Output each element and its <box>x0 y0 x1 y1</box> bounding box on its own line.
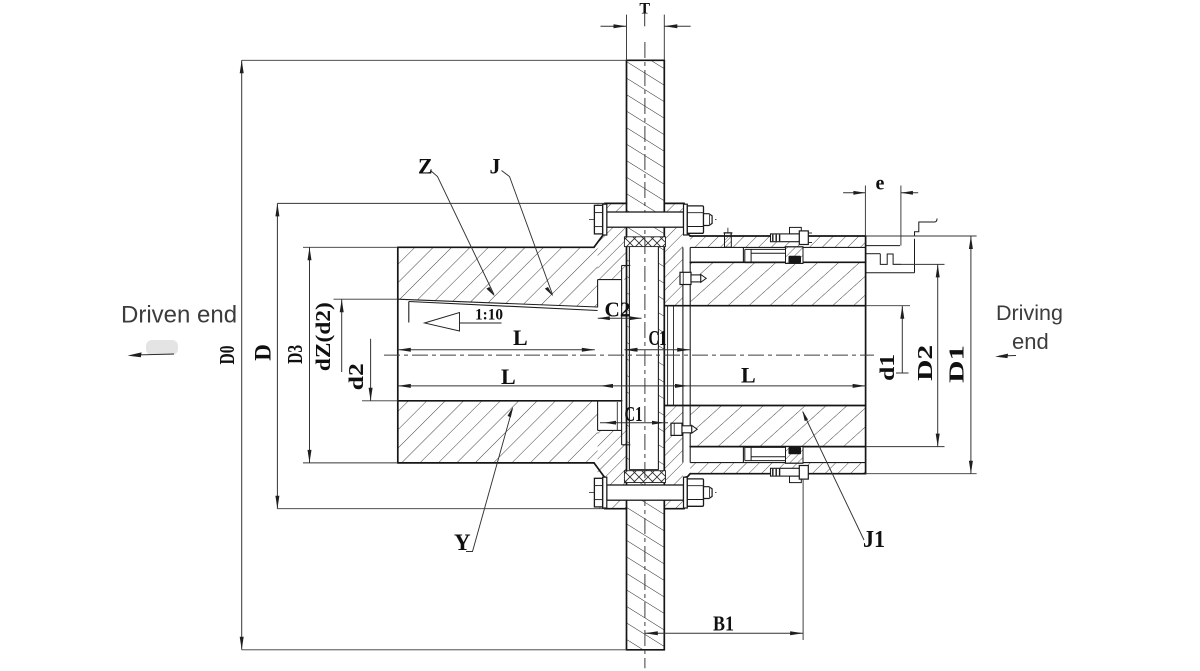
driven end arrow <box>128 340 179 357</box>
svg-text:Driving: Driving <box>996 301 1063 325</box>
D3 extension bottom <box>303 462 398 464</box>
svg-text:C1: C1 <box>625 402 643 426</box>
svg-text:d2: d2 <box>344 363 368 390</box>
svg-text:D0: D0 <box>215 346 239 365</box>
right hub section (bottom block) <box>690 406 865 447</box>
top main bolt <box>589 204 717 235</box>
labyrinth comb <box>866 245 900 247</box>
D3 arrows <box>308 247 312 260</box>
right hub section (top block) <box>690 262 865 305</box>
svg-text:C1: C1 <box>649 326 667 350</box>
L upper arrows <box>398 348 411 352</box>
svg-text:J1: J1 <box>863 527 885 553</box>
spigot ring bottom <box>624 471 665 483</box>
C1 lower extension <box>616 402 618 430</box>
svg-text:L: L <box>501 364 516 389</box>
left hub bore bottom <box>398 400 622 402</box>
right hub bore <box>664 305 865 307</box>
dimension D3 line <box>309 247 311 463</box>
D extension bottom <box>277 508 604 510</box>
svg-text:Z: Z <box>418 154 433 179</box>
dimension D2 line <box>937 264 939 446</box>
svg-text:end: end <box>1012 329 1049 354</box>
L lower arrows <box>398 384 411 388</box>
taper big-end tick <box>408 302 410 323</box>
dimension D line <box>276 203 278 508</box>
hub bore counterbore top <box>598 279 622 281</box>
D0 arrows <box>240 60 244 73</box>
disc hub boss face <box>621 266 623 445</box>
svg-text:D1: D1 <box>945 345 969 383</box>
D1 extension top <box>866 235 977 237</box>
left hub section (top) <box>398 247 598 307</box>
sleeve ID lines <box>690 246 865 248</box>
left hub outline <box>397 247 399 463</box>
svg-text:e: e <box>876 173 885 195</box>
right flange section (bottom) <box>664 406 683 509</box>
left hub bore top hatch boundary <box>398 299 598 307</box>
svg-text:d1: d1 <box>875 354 899 381</box>
D1 extension bottom <box>866 473 977 475</box>
svg-text:T: T <box>639 1 650 18</box>
d1 arrow <box>900 306 904 319</box>
taper 1:10 bore line <box>409 302 598 311</box>
T arrows <box>614 24 627 28</box>
left flange web section (bottom strip) <box>598 430 627 508</box>
leader arrow tips <box>486 287 495 296</box>
leader J1 <box>803 412 864 540</box>
T extension lines <box>626 15 628 61</box>
disc web window edges <box>628 243 630 470</box>
dimension C2 line <box>598 317 642 319</box>
faces seen through right flange bore <box>667 306 669 406</box>
dimension B1 line <box>645 632 803 634</box>
left hub section (bottom) <box>398 401 598 463</box>
cover screw top <box>680 272 706 284</box>
svg-text:L: L <box>741 363 756 388</box>
svg-text:1:10: 1:10 <box>475 307 503 324</box>
leader J <box>502 171 553 295</box>
e arrows <box>853 191 865 195</box>
brake shoe break-out step <box>915 222 935 236</box>
dZ extension <box>334 298 398 300</box>
bottom main bolt <box>589 477 717 508</box>
seal gland section top <box>786 247 804 264</box>
right flange section (top) <box>664 204 683 306</box>
D1 arrows <box>969 236 973 249</box>
sleeve rim section (bottom band) <box>690 463 865 474</box>
dimension T line <box>601 25 627 27</box>
D2 arrows <box>936 264 940 277</box>
dimension C1 lower line <box>600 422 668 424</box>
svg-text:B1: B1 <box>713 612 734 636</box>
svg-text:D3: D3 <box>283 345 307 364</box>
seal cover bolt top <box>771 227 813 244</box>
cover ring faces <box>682 247 684 462</box>
svg-text:Driven end: Driven end <box>121 302 237 329</box>
leader Y <box>466 409 513 552</box>
seal housing edge <box>914 239 916 273</box>
cover screw bottom <box>671 423 697 435</box>
svg-text:dZ(d2): dZ(d2) <box>311 302 335 371</box>
D0 extension bottom <box>242 649 627 651</box>
left flange boss slants <box>594 203 605 247</box>
dimension d2 line <box>370 339 372 401</box>
d1 extension <box>866 305 910 307</box>
dimension dZ(d2) line <box>341 299 343 372</box>
e extension lines <box>864 186 866 237</box>
dimension d1 line <box>901 306 903 373</box>
spigot ring top <box>624 237 665 247</box>
right hub OD edges <box>690 261 865 263</box>
right flange OD edges <box>664 202 684 204</box>
svg-text:D2: D2 <box>913 345 937 381</box>
grease plug on sleeve <box>724 228 733 247</box>
left flange web section (top strip) <box>598 204 627 280</box>
dimension L lower line <box>398 385 866 387</box>
svg-text:L: L <box>513 325 528 350</box>
driving end arrow <box>995 354 1016 359</box>
sleeve rim section (top band) <box>690 236 865 247</box>
sleeve / right hub right face <box>865 236 867 474</box>
d2 extension <box>362 400 398 402</box>
dimension C1 upper line <box>625 349 691 351</box>
C2 arrows <box>598 316 610 320</box>
leader Z <box>431 171 495 295</box>
B1 arrows <box>645 631 658 635</box>
d2 arrow <box>369 388 373 401</box>
gear tooth zone ends <box>742 247 744 262</box>
D extension top <box>277 202 604 204</box>
B1 extension <box>802 479 804 641</box>
dimension D1 line <box>970 236 972 474</box>
seal cover plate top <box>745 249 786 262</box>
C1 lower arrows <box>604 421 616 425</box>
dimension e lines <box>843 192 865 194</box>
svg-text:Y: Y <box>454 530 471 555</box>
hub bore counterbore bottom <box>598 429 622 431</box>
right flange to sleeve fillets <box>684 233 690 236</box>
svg-text:J: J <box>490 154 501 179</box>
D2 extension bottom <box>866 446 945 448</box>
brake wheel disc outline <box>626 60 628 650</box>
seal gland section bottom <box>786 447 804 464</box>
D2 extension top <box>893 263 945 265</box>
D arrows <box>275 203 279 216</box>
svg-text:D: D <box>251 344 276 361</box>
main horizontal centreline <box>384 354 874 356</box>
disc vertical centreline <box>644 42 646 668</box>
dZ arrow <box>340 299 344 312</box>
dimension L upper line <box>398 349 595 351</box>
seal cover plate bottom <box>745 447 786 460</box>
seal cover bolt bottom <box>771 466 809 483</box>
sleeve OD <box>690 235 865 237</box>
dimension D0 line <box>241 60 243 650</box>
svg-text:C2: C2 <box>605 298 631 322</box>
D0 extension top <box>242 59 627 61</box>
brake wheel disc section with web window <box>627 60 665 650</box>
left flange OD edges <box>605 202 627 204</box>
C1 upper arrows <box>625 348 638 352</box>
D3 extension top <box>303 246 398 248</box>
